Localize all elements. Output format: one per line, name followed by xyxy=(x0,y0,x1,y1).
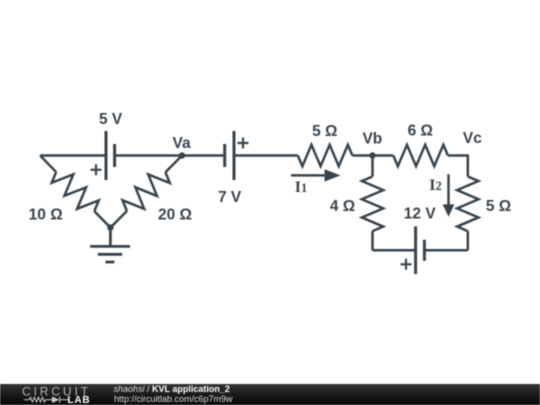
svg-text:5 V: 5 V xyxy=(99,111,123,128)
wire xyxy=(40,154,106,157)
svg-text:7 V: 7 V xyxy=(218,189,242,206)
svg-text:5 Ω: 5 Ω xyxy=(312,123,337,140)
ground xyxy=(90,228,130,262)
node Va xyxy=(179,152,185,158)
wire xyxy=(234,154,298,157)
svg-text:LAB: LAB xyxy=(68,395,91,405)
battery 12V xyxy=(416,226,425,274)
wire bottom rail right xyxy=(424,249,467,252)
battery 7V xyxy=(225,131,234,180)
resistor 20ohm diagonal xyxy=(165,156,182,173)
wire xyxy=(182,154,225,157)
svg-text:I1: I1 xyxy=(295,179,307,196)
svg-text:20 Ω: 20 Ω xyxy=(158,207,192,224)
wire xyxy=(115,154,182,157)
svg-text:Vb: Vb xyxy=(362,130,382,147)
resistor 6ohm horizontal xyxy=(393,145,448,166)
resistor 5ohm vertical right xyxy=(457,177,478,232)
svg-text:4 Ω: 4 Ω xyxy=(330,198,355,215)
wire bottom rail left xyxy=(373,249,416,252)
svg-text:10 Ω: 10 Ω xyxy=(29,207,63,224)
wire xyxy=(448,156,468,177)
svg-text:5 Ω: 5 Ω xyxy=(486,198,511,215)
current arrow I1 xyxy=(291,174,325,177)
wire xyxy=(352,154,393,157)
resistor 5ohm horizontal xyxy=(298,145,353,166)
svg-text:12 V: 12 V xyxy=(404,206,437,223)
node ground junction xyxy=(107,224,113,230)
svg-text:Vc: Vc xyxy=(463,130,482,147)
svg-text:6 Ω: 6 Ω xyxy=(408,123,433,140)
resistor 10ohm diagonal xyxy=(40,156,56,173)
svg-text:Va: Va xyxy=(173,135,191,152)
svg-text:I2: I2 xyxy=(429,177,441,194)
circuitlab logo xyxy=(0,383,110,405)
footer bar xyxy=(0,384,540,405)
resistor 4ohm vertical xyxy=(371,156,374,177)
footer text xyxy=(114,384,230,394)
current arrow I2 xyxy=(447,174,450,205)
node Vb xyxy=(369,152,375,158)
battery 5V xyxy=(106,131,115,180)
